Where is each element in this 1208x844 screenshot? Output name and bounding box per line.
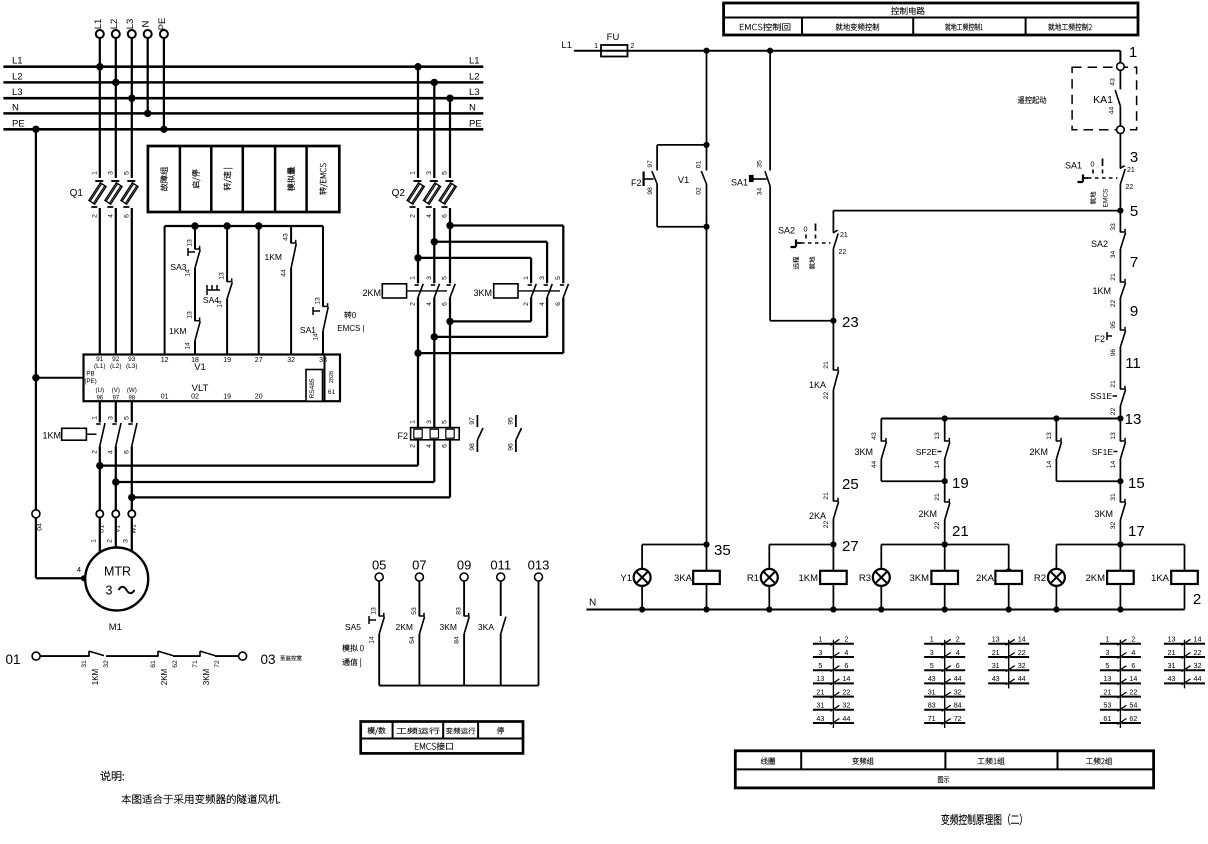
- svg-text:13: 13: [934, 432, 941, 440]
- svg-text:21: 21: [816, 687, 824, 696]
- svg-text:3: 3: [426, 276, 433, 280]
- svg-text:L3: L3: [125, 19, 136, 30]
- svg-text:2828: 2828: [329, 371, 335, 383]
- svg-text:15: 15: [1128, 475, 1145, 492]
- svg-text:6: 6: [442, 302, 449, 306]
- svg-text:96: 96: [507, 443, 514, 451]
- svg-text:21: 21: [1110, 380, 1117, 388]
- svg-text:14: 14: [313, 333, 320, 341]
- svg-text:4: 4: [77, 565, 81, 574]
- wire bypass drops from buses: [414, 63, 453, 178]
- svg-text:19: 19: [223, 357, 231, 364]
- svg-text:6: 6: [124, 450, 131, 454]
- contactor 2KM aux contact 53-54: [396, 581, 425, 686]
- svg-text:SA1: SA1: [731, 178, 748, 188]
- svg-text:1KM: 1KM: [265, 252, 282, 262]
- svg-text:12: 12: [161, 357, 169, 364]
- svg-text:2KA: 2KA: [976, 573, 995, 584]
- svg-text:SF1E: SF1E: [1092, 447, 1114, 457]
- wire control feeder L1: [627, 48, 1120, 63]
- svg-text:3: 3: [122, 539, 129, 543]
- svg-text:09: 09: [457, 558, 471, 573]
- svg-text:4: 4: [107, 214, 114, 218]
- svg-text:34: 34: [757, 188, 764, 196]
- svg-text:1KM: 1KM: [1092, 286, 1111, 296]
- node 25: [842, 476, 859, 493]
- svg-text:4: 4: [539, 302, 546, 306]
- svg-text:3: 3: [818, 648, 822, 657]
- contactor 2KM aux contact 13-14: [1029, 419, 1061, 482]
- svg-text:6: 6: [123, 214, 130, 218]
- svg-text:2: 2: [523, 302, 530, 306]
- svg-text:N: N: [141, 20, 152, 27]
- svg-text:33: 33: [1110, 223, 1117, 231]
- svg-text:13: 13: [1168, 635, 1176, 644]
- svg-text:96: 96: [1110, 349, 1117, 357]
- contact cross-reference 1KA: [1164, 635, 1205, 689]
- node 1: [1129, 44, 1137, 61]
- svg-text:6: 6: [555, 302, 562, 306]
- svg-text:SA1: SA1: [1065, 161, 1082, 171]
- svg-text:F2: F2: [631, 178, 642, 188]
- svg-text:1: 1: [92, 416, 99, 420]
- svg-text:27: 27: [255, 357, 263, 364]
- svg-text:13: 13: [187, 239, 194, 247]
- svg-text:SA5: SA5: [345, 622, 361, 632]
- wire pilot rail down to node 35: [703, 227, 730, 559]
- svg-text:95: 95: [507, 417, 514, 425]
- svg-text:3KM: 3KM: [202, 668, 211, 685]
- svg-text:43: 43: [1110, 78, 1117, 86]
- node 9: [1130, 303, 1138, 320]
- svg-text:21: 21: [934, 493, 941, 501]
- svg-text:21: 21: [1127, 167, 1135, 174]
- svg-text:2: 2: [91, 214, 98, 218]
- node 27 bus: [769, 538, 858, 555]
- svg-text:2: 2: [92, 450, 99, 454]
- svg-text:18: 18: [191, 357, 199, 364]
- svg-text:4: 4: [426, 214, 433, 218]
- svg-text:93: 93: [128, 356, 136, 363]
- table function legend bottom: [735, 751, 1153, 788]
- svg-text:20: 20: [255, 394, 263, 401]
- svg-text:62: 62: [1129, 714, 1137, 723]
- node N incoming terminal: [141, 20, 152, 117]
- svg-text:14: 14: [842, 674, 850, 683]
- svg-text:L1: L1: [93, 19, 104, 30]
- svg-text:(L3): (L3): [126, 363, 138, 370]
- relay 3KA aux contact: [478, 581, 506, 686]
- svg-text:L2: L2: [469, 71, 480, 82]
- svg-text:1: 1: [410, 276, 417, 280]
- svg-text:L1: L1: [12, 56, 23, 67]
- svg-text:35: 35: [757, 160, 764, 168]
- lamp R1: [747, 545, 778, 610]
- contactor coil 3KM: [909, 545, 958, 610]
- svg-text:2KM: 2KM: [396, 622, 413, 632]
- breaker Q2: [392, 171, 457, 218]
- svg-text:01: 01: [161, 394, 169, 401]
- svg-text:5: 5: [555, 276, 562, 280]
- svg-text:32: 32: [1110, 522, 1117, 530]
- svg-text:54: 54: [1129, 701, 1137, 710]
- svg-text:1KA: 1KA: [1151, 573, 1170, 584]
- svg-text:0: 0: [803, 225, 807, 234]
- svg-text:13: 13: [187, 311, 194, 319]
- svg-text:04: 04: [37, 523, 44, 531]
- svg-text:1: 1: [410, 420, 417, 424]
- svg-text:22: 22: [934, 522, 941, 530]
- svg-text:31: 31: [816, 701, 824, 710]
- svg-text:1: 1: [91, 171, 98, 175]
- svg-text:3KM: 3KM: [909, 573, 929, 584]
- svg-text:61: 61: [1103, 714, 1111, 723]
- svg-text:5: 5: [1130, 203, 1138, 220]
- svg-text:83: 83: [456, 607, 463, 615]
- lamp R3: [859, 545, 890, 610]
- svg-text:RS485: RS485: [309, 378, 316, 398]
- contactor 1KM aux contact 21-22 on rail: [1092, 273, 1125, 330]
- svg-text:R3: R3: [859, 573, 871, 584]
- svg-text:1KM: 1KM: [798, 573, 818, 584]
- contact cross-reference 2KA: [988, 635, 1029, 689]
- inverter U1 V1 VLT box: [84, 355, 341, 402]
- note text: [101, 771, 281, 804]
- svg-text:6: 6: [844, 661, 848, 670]
- svg-text:22: 22: [839, 249, 847, 256]
- svg-text:1KM: 1KM: [91, 668, 100, 685]
- contact cross-reference 1KM: [813, 635, 854, 728]
- start button SF1E contact 13-14 on rail: [1092, 419, 1126, 482]
- svg-text:61: 61: [150, 660, 157, 668]
- fuse FU: [561, 32, 634, 57]
- label remote start: [1018, 96, 1046, 103]
- svg-text:84: 84: [454, 636, 461, 644]
- svg-text:3: 3: [107, 171, 114, 175]
- svg-text:19: 19: [223, 394, 231, 401]
- svg-text:(W): (W): [127, 387, 137, 394]
- svg-text:1KM: 1KM: [42, 431, 61, 441]
- svg-text:22: 22: [1018, 648, 1026, 657]
- node L2 incoming terminal: [109, 19, 120, 178]
- svg-text:5: 5: [442, 171, 449, 175]
- wire PE to inverter PE pin: [36, 377, 84, 379]
- svg-text:4: 4: [1131, 648, 1135, 657]
- svg-text:PB: PB: [86, 371, 94, 378]
- svg-text:97: 97: [469, 417, 476, 425]
- svg-text:32: 32: [954, 687, 962, 696]
- selector SA2 contact 21-22 (EMCS/local): [778, 211, 848, 321]
- svg-text:27: 27: [842, 538, 859, 555]
- svg-text:07: 07: [412, 558, 426, 573]
- svg-text:L1: L1: [469, 56, 480, 67]
- switch SA4 contact 13-14: [203, 226, 232, 354]
- svg-text:SA2: SA2: [1091, 239, 1108, 249]
- node 5 and bus to SA2: [833, 203, 1138, 220]
- contactor 3KM main contacts: [473, 276, 568, 306]
- svg-text:F2: F2: [1094, 334, 1105, 344]
- svg-text:44: 44: [1018, 674, 1026, 683]
- svg-text:VLT: VLT: [192, 383, 209, 394]
- svg-text:EMCS |: EMCS |: [337, 324, 364, 333]
- svg-text:2KM: 2KM: [160, 668, 169, 685]
- node 13 bus: [881, 411, 1141, 428]
- svg-text:22: 22: [1194, 648, 1202, 657]
- svg-text:83: 83: [928, 701, 936, 710]
- svg-text:2KM: 2KM: [1085, 573, 1105, 584]
- bus L1: [3, 56, 483, 67]
- svg-text:L2: L2: [12, 71, 23, 82]
- svg-text:F2: F2: [397, 431, 408, 441]
- bus N: [3, 102, 483, 113]
- svg-text:2: 2: [410, 214, 417, 218]
- svg-text:32: 32: [287, 357, 295, 364]
- svg-text:N: N: [469, 102, 476, 113]
- selector SA1 contact 21-22: [1065, 159, 1135, 208]
- contactor 2KM aux NC contact 21-22: [918, 481, 949, 544]
- svg-text:01: 01: [5, 652, 20, 667]
- svg-text:43: 43: [816, 714, 824, 723]
- svg-text:3: 3: [1130, 149, 1138, 166]
- svg-text:53: 53: [411, 607, 418, 615]
- svg-text:3KA: 3KA: [478, 622, 494, 632]
- contact cross-reference 2KM: [1100, 635, 1141, 728]
- node 11: [1125, 355, 1141, 372]
- contactor 2KM main contacts: [362, 276, 455, 306]
- svg-text:71: 71: [192, 660, 199, 668]
- svg-text:2: 2: [631, 43, 635, 50]
- svg-text:92: 92: [112, 356, 120, 363]
- svg-text:31: 31: [928, 687, 936, 696]
- table EMCS interface legend: [361, 722, 523, 754]
- svg-text:6: 6: [956, 661, 960, 670]
- svg-text:1: 1: [1129, 44, 1137, 61]
- svg-text:L2: L2: [109, 19, 120, 30]
- svg-text:3KA: 3KA: [674, 573, 693, 584]
- svg-text:3: 3: [106, 584, 113, 598]
- svg-text:R1: R1: [747, 573, 759, 584]
- svg-text:44: 44: [871, 461, 878, 469]
- node 3: [1130, 149, 1138, 166]
- svg-text:N: N: [589, 598, 596, 609]
- svg-text:43: 43: [1168, 674, 1176, 683]
- svg-text:5: 5: [442, 420, 449, 424]
- switch SA1 contact 13-14 (column 33): [300, 226, 328, 354]
- svg-text:97: 97: [112, 395, 119, 401]
- svg-text:R2: R2: [1034, 573, 1046, 584]
- svg-text:13: 13: [1110, 432, 1117, 440]
- svg-text:5: 5: [123, 171, 130, 175]
- relay coil 2KA: [976, 545, 1022, 610]
- svg-text:V1: V1: [678, 175, 690, 186]
- svg-text:21: 21: [992, 648, 1000, 657]
- svg-text:N: N: [12, 102, 19, 113]
- svg-text:13: 13: [219, 272, 226, 280]
- switch SA3 contact 13-14: [170, 226, 200, 277]
- svg-text:21: 21: [1110, 273, 1117, 281]
- contactor 1KM aux contact 43-44 (column 32): [265, 226, 297, 354]
- contact cross-reference 3KM: [924, 635, 965, 728]
- svg-text:14: 14: [934, 461, 941, 469]
- svg-text:22: 22: [1129, 687, 1137, 696]
- wire terminal 013 drop: [538, 581, 540, 686]
- svg-text:4: 4: [844, 648, 848, 657]
- svg-text:95: 95: [1110, 321, 1117, 329]
- svg-text:14: 14: [1110, 461, 1117, 469]
- overload F2 aux contact 95-96: [507, 415, 521, 452]
- svg-text:14: 14: [185, 269, 192, 277]
- stop switch SS1E contact 21-22 on rail: [1090, 380, 1125, 418]
- svg-text:32: 32: [103, 660, 110, 668]
- relay KA1 remote-start contact 43-44 (dashed future box): [1072, 63, 1137, 134]
- relay coil 1KA: [1151, 545, 1198, 610]
- svg-text:13: 13: [315, 297, 322, 305]
- svg-text:43: 43: [992, 674, 1000, 683]
- label selector positions EMCS: [337, 311, 364, 333]
- svg-text:11: 11: [1125, 355, 1141, 372]
- svg-text:9: 9: [1130, 303, 1138, 320]
- svg-text:05: 05: [372, 558, 386, 573]
- svg-text:44: 44: [842, 714, 850, 723]
- svg-text:2: 2: [106, 539, 113, 543]
- relay coil 3KA: [674, 545, 720, 610]
- svg-text:(U): (U): [96, 387, 105, 394]
- node 7: [1130, 254, 1138, 271]
- svg-text:22: 22: [842, 687, 850, 696]
- wire control common rail: [165, 222, 323, 354]
- svg-text:Q2: Q2: [392, 188, 406, 199]
- svg-text:01: 01: [696, 161, 703, 169]
- svg-text:3: 3: [426, 420, 433, 424]
- svg-text:14: 14: [217, 300, 224, 308]
- svg-text:PE: PE: [12, 118, 25, 129]
- svg-text:011: 011: [490, 558, 511, 573]
- contactor 3KM aux contact 43-44 (seal-in): [854, 419, 886, 482]
- wire EMCS pilot branch: [703, 51, 709, 148]
- svg-text:2KA: 2KA: [809, 511, 826, 521]
- svg-text:SF2E: SF2E: [916, 447, 938, 457]
- svg-text:Q1: Q1: [70, 188, 84, 199]
- svg-text:84: 84: [954, 701, 962, 710]
- wire EMCS common: [379, 685, 538, 687]
- relay 2KA contact 21-22: [809, 483, 839, 545]
- svg-text:3: 3: [108, 416, 115, 420]
- terminals 05 07 09 011 013: [372, 558, 549, 582]
- svg-text:14: 14: [1046, 461, 1053, 469]
- switch SA5 contact 13-14: [345, 581, 384, 686]
- svg-text:31: 31: [81, 660, 88, 668]
- svg-text:43: 43: [871, 432, 878, 440]
- wire bypass verticals: [414, 208, 453, 428]
- wire column 27: [258, 226, 260, 354]
- lamp R2: [1034, 545, 1065, 610]
- svg-text:31: 31: [992, 661, 1000, 670]
- svg-text:0: 0: [1090, 160, 1094, 169]
- svg-text:3: 3: [426, 171, 433, 175]
- contactor 3KM aux contact 83-84: [440, 581, 470, 686]
- svg-text:62: 62: [172, 660, 179, 668]
- wire PE drop to motor frame: [32, 126, 87, 582]
- contactor coil 2KM: [1085, 545, 1133, 610]
- svg-text:31: 31: [1168, 661, 1176, 670]
- wire rail to node 3: [1119, 134, 1121, 169]
- svg-text:PE: PE: [469, 118, 482, 129]
- svg-text:34: 34: [1110, 251, 1117, 259]
- node 35 bus: [642, 544, 706, 546]
- table control circuit header: [724, 3, 1138, 35]
- svg-text:21: 21: [952, 523, 969, 540]
- svg-text:32: 32: [842, 701, 850, 710]
- contactor 3KM aux NC contact 31-32 on rail: [1094, 481, 1125, 544]
- svg-text:2: 2: [956, 635, 960, 644]
- svg-text:1: 1: [930, 635, 934, 644]
- svg-text:3KM: 3KM: [473, 288, 492, 298]
- breaker Q1: [70, 171, 138, 355]
- svg-text:02: 02: [191, 394, 199, 401]
- svg-text:13: 13: [816, 674, 824, 683]
- svg-text:03: 03: [260, 652, 275, 667]
- svg-text:22: 22: [1126, 184, 1134, 191]
- svg-text:4: 4: [426, 444, 433, 448]
- svg-text:44: 44: [954, 674, 962, 683]
- svg-text:98: 98: [647, 187, 654, 195]
- overload F2 aux contact 97-98: [469, 415, 483, 452]
- svg-text:1: 1: [90, 539, 97, 543]
- svg-text:21: 21: [840, 232, 848, 239]
- title text: [942, 814, 1022, 825]
- node PE incoming terminal: [157, 18, 168, 133]
- svg-text:22: 22: [1110, 300, 1117, 308]
- overload F2 contact 95-96 on rail: [1094, 321, 1125, 389]
- svg-text:(V): (V): [112, 387, 120, 394]
- contactor 1KM aux contact 13-14 (column 18): [169, 268, 200, 354]
- svg-text:4: 4: [108, 450, 115, 454]
- svg-text:MTR: MTR: [104, 565, 131, 579]
- contactor 1KM main contacts: [42, 402, 137, 510]
- bus L2: [3, 71, 483, 82]
- svg-text:SA2: SA2: [778, 226, 795, 236]
- selector SA2 contact 33-34 on rail: [1091, 205, 1126, 282]
- svg-text:7: 7: [1130, 254, 1138, 271]
- svg-text:21: 21: [1103, 687, 1111, 696]
- svg-text:5: 5: [1105, 661, 1109, 670]
- svg-text:013: 013: [528, 558, 550, 573]
- label analog positions: [342, 644, 363, 667]
- svg-text:19: 19: [952, 475, 969, 492]
- svg-text:14: 14: [1018, 635, 1026, 644]
- svg-text:97: 97: [647, 160, 654, 168]
- svg-text:6: 6: [442, 444, 449, 448]
- svg-text:5: 5: [442, 276, 449, 280]
- svg-text:98: 98: [128, 395, 135, 401]
- overload relay F2 (power poles): [397, 420, 459, 498]
- svg-text:31: 31: [1110, 493, 1117, 501]
- svg-text:54: 54: [409, 636, 416, 644]
- svg-text:44: 44: [1109, 107, 1116, 115]
- svg-text:(L1): (L1): [94, 363, 106, 370]
- svg-text:3: 3: [539, 276, 546, 280]
- svg-text:4: 4: [426, 302, 433, 306]
- lamp Y1: [620, 545, 650, 610]
- bus L3: [3, 87, 483, 98]
- wire run-feedback loop 01-03: [5, 651, 301, 685]
- svg-text:2: 2: [1131, 635, 1135, 644]
- selector SA1 EMCS branch contact 35-34: [731, 51, 833, 321]
- node 19: [881, 475, 968, 492]
- svg-text:14: 14: [1194, 635, 1202, 644]
- svg-text:91: 91: [96, 356, 104, 363]
- svg-text:22: 22: [823, 392, 830, 400]
